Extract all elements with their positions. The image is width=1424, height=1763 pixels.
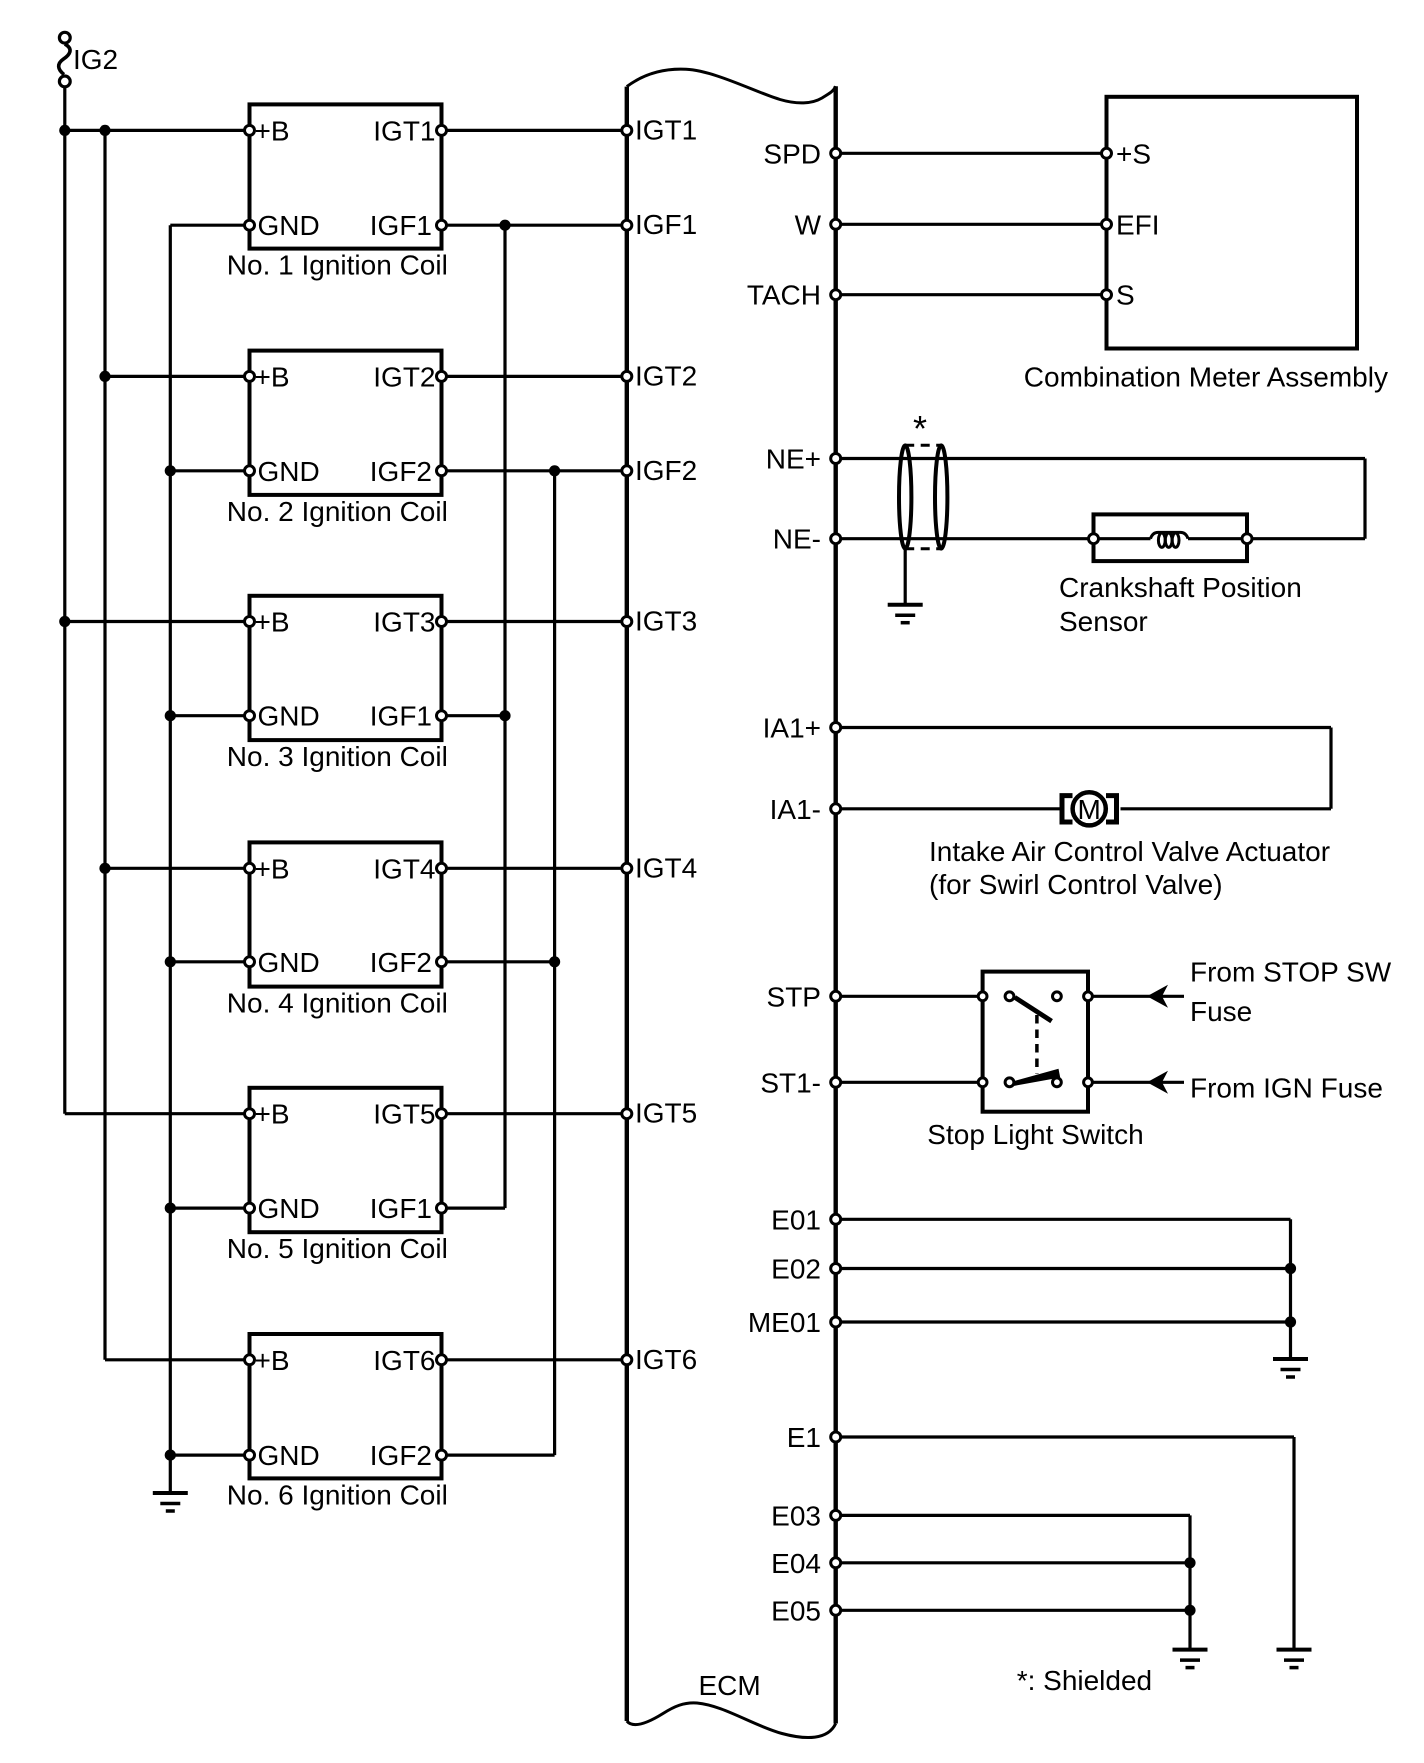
svg-text:IGT2: IGT2 (373, 361, 435, 392)
svg-text:+B: +B (255, 115, 290, 146)
svg-text:No. 6 Ignition Coil: No. 6 Ignition Coil (227, 1479, 448, 1510)
svg-text:No. 4 Ignition Coil: No. 4 Ignition Coil (227, 988, 448, 1019)
svg-text:Sensor: Sensor (1059, 606, 1148, 637)
svg-text:IA1-: IA1- (770, 794, 821, 825)
svg-text:IGF2: IGF2 (370, 1440, 432, 1471)
svg-text:No. 5 Ignition Coil: No. 5 Ignition Coil (227, 1233, 448, 1264)
svg-text:GND: GND (258, 210, 320, 241)
svg-text:*: Shielded: *: Shielded (1017, 1665, 1152, 1696)
svg-text:IG2: IG2 (73, 44, 118, 75)
svg-text:From IGN Fuse: From IGN Fuse (1190, 1073, 1383, 1104)
svg-text:IGT4: IGT4 (635, 852, 697, 883)
svg-text:IGT6: IGT6 (373, 1345, 435, 1376)
svg-text:IGF2: IGF2 (635, 455, 697, 486)
svg-text:GND: GND (258, 1193, 320, 1224)
svg-text:E04: E04 (771, 1548, 821, 1579)
svg-text:IGT6: IGT6 (635, 1344, 697, 1375)
svg-text:From STOP SW: From STOP SW (1190, 956, 1392, 987)
svg-text:+B: +B (255, 1099, 290, 1130)
svg-text:IGT1: IGT1 (373, 115, 435, 146)
svg-text:EFI: EFI (1116, 209, 1160, 240)
svg-text:TACH: TACH (747, 280, 821, 311)
svg-text:IA1+: IA1+ (763, 713, 821, 744)
svg-text:IGT4: IGT4 (373, 853, 435, 884)
svg-text:SPD: SPD (763, 138, 821, 169)
svg-text:Fuse: Fuse (1190, 996, 1252, 1027)
svg-text:IGF1: IGF1 (635, 209, 697, 240)
svg-text:Combination Meter Assembly: Combination Meter Assembly (1024, 361, 1388, 392)
svg-text:E01: E01 (771, 1204, 821, 1235)
svg-text:IGF2: IGF2 (370, 456, 432, 487)
svg-text:E1: E1 (787, 1422, 821, 1453)
svg-text:S: S (1116, 280, 1135, 311)
svg-text:IGF1: IGF1 (370, 701, 432, 732)
svg-text:(for Swirl Control Valve): (for Swirl Control Valve) (929, 869, 1223, 900)
svg-text:+B: +B (255, 853, 290, 884)
svg-text:ECM: ECM (699, 1670, 761, 1701)
svg-text:GND: GND (258, 456, 320, 487)
svg-text:IGF2: IGF2 (370, 947, 432, 978)
svg-text:IGF1: IGF1 (370, 210, 432, 241)
svg-text:Crankshaft Position: Crankshaft Position (1059, 572, 1302, 603)
svg-text:IGT5: IGT5 (635, 1098, 697, 1129)
svg-text:+B: +B (255, 1345, 290, 1376)
svg-text:IGF1: IGF1 (370, 1193, 432, 1224)
svg-text:GND: GND (258, 1440, 320, 1471)
svg-text:GND: GND (258, 947, 320, 978)
svg-text:E05: E05 (771, 1595, 821, 1626)
svg-text:E03: E03 (771, 1500, 821, 1531)
svg-text:No. 3 Ignition Coil: No. 3 Ignition Coil (227, 741, 448, 772)
svg-text:ME01: ME01 (748, 1307, 821, 1338)
svg-text:IGT5: IGT5 (373, 1099, 435, 1130)
svg-text:NE+: NE+ (766, 444, 821, 475)
svg-text:ST1-: ST1- (760, 1067, 821, 1098)
svg-text:E02: E02 (771, 1254, 821, 1285)
svg-text:W: W (795, 209, 822, 240)
svg-text:IGT1: IGT1 (635, 114, 697, 145)
svg-text:+B: +B (255, 607, 290, 638)
svg-text:Stop Light Switch: Stop Light Switch (927, 1119, 1143, 1150)
svg-text:M: M (1078, 794, 1101, 825)
svg-text:IGT3: IGT3 (373, 607, 435, 638)
svg-text:IGT2: IGT2 (635, 360, 697, 391)
svg-text:STP: STP (767, 981, 821, 1012)
svg-text:+B: +B (255, 361, 290, 392)
svg-text:No. 2 Ignition Coil: No. 2 Ignition Coil (227, 496, 448, 527)
svg-text:*: * (913, 408, 927, 449)
svg-text:No. 1 Ignition Coil: No. 1 Ignition Coil (227, 250, 448, 281)
svg-text:GND: GND (258, 701, 320, 732)
svg-text:NE-: NE- (773, 524, 821, 555)
svg-text:IGT3: IGT3 (635, 606, 697, 637)
svg-text:Intake Air Control Valve Actua: Intake Air Control Valve Actuator (929, 836, 1330, 867)
svg-text:+S: +S (1116, 138, 1151, 169)
